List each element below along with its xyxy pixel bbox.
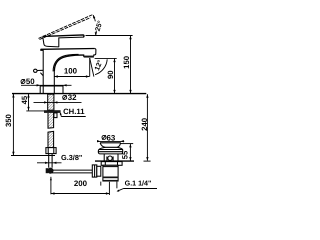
pop-up rod knob at back of body [34,69,44,76]
svg-text:150: 150 [122,56,131,69]
hose nipple below nut [54,113,57,118]
extension line from outlet to 90 dim [95,57,117,59]
aerator / outlet [84,55,94,58]
25° angle arc with arrows [93,15,97,36]
faucet lever handle [43,35,84,47]
svg-text:100: 100 [64,67,78,76]
G.3/8" callout [37,153,82,164]
240 dimension [144,94,151,161]
drain flange (ribbed) [98,150,122,154]
55 dimension [121,144,133,161]
extension line from lever top to 150 dim [86,35,133,37]
hose upper segment with break [48,113,54,148]
100 dimension [54,75,89,77]
12° spray angle [90,58,108,77]
supply pipe end fitting [92,165,101,177]
supply pipes below coupling [49,154,52,168]
drain tailpipe G.1 1/4 [103,165,118,181]
Ø32 label [63,93,77,102]
Ø50 dimension [21,84,72,86]
lines below tailpipe [101,182,117,189]
elbow joint (filled) [47,168,53,174]
drain body flare [99,147,123,149]
base plate [40,86,63,93]
basin surface line [95,160,134,162]
faucet body and spout outline [41,49,96,94]
svg-text:32: 32 [68,93,77,102]
45 dimension [26,94,44,111]
svg-text:200: 200 [74,179,88,188]
drain neck and pop-up ball [104,154,118,161]
svg-text:240: 240 [140,118,149,131]
svg-text:350: 350 [4,114,13,127]
svg-text:CH.11: CH.11 [63,107,85,116]
CH.11 label with leader [60,107,86,116]
200 dimension [50,177,110,195]
threaded shank below deck [48,94,54,110]
svg-text:50: 50 [26,77,35,86]
350 dimension [11,94,55,156]
drain locking nut [101,162,122,166]
svg-text:55: 55 [121,150,130,159]
lever raised phantom (25°) dashed lines [39,15,93,40]
svg-text:G.3/8": G.3/8" [61,153,82,162]
svg-text:G.1 1/4": G.1 1/4" [125,180,152,188]
drain cap [100,143,121,148]
Ø63 dimension [97,140,124,142]
horizontal supply pipe [52,170,92,173]
Ø32 dimension [34,101,82,103]
Ø63 label [102,133,116,142]
90 dimension [113,59,115,94]
mounting nut CH.11 [44,110,61,113]
svg-text:63: 63 [107,133,116,142]
hose coupling nut G.3/8 [46,148,56,154]
svg-text:45: 45 [20,95,29,104]
deck / mounting surface line [12,93,146,95]
150 dimension [129,36,131,94]
G.1 1/4" label with leader [117,180,157,192]
svg-text:90: 90 [106,70,115,79]
Ø50 label [21,77,35,86]
